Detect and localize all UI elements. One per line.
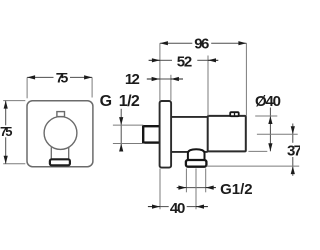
- dim 75 vertical: extension lines: [3, 100, 25, 102]
- G 1/2 leader line with arrows: [120, 109, 122, 152]
- dim 12: extension line right: [170, 75, 172, 100]
- dim 75 vertical: arrows: [4, 101, 8, 109]
- front view outlet neck right line: [68, 147, 70, 159]
- svg-text:G: G: [100, 93, 112, 110]
- svg-text:37: 37: [287, 142, 300, 159]
- front view outlet neck left line: [50, 147, 52, 159]
- dim G1/2 bottom: dimension line + arrows: [186, 187, 205, 189]
- svg-text:Ø40: Ø40: [255, 93, 281, 110]
- svg-text:G1/2: G1/2: [220, 181, 253, 198]
- dim 52: arrows outside: [149, 59, 160, 61]
- front view circle (volume control): [44, 117, 77, 150]
- dim 12: dimension line: [157, 78, 172, 80]
- front view square plate: [27, 101, 93, 167]
- svg-text:40: 40: [170, 200, 186, 217]
- dim 75 horizontal: dimension line: [27, 76, 53, 78]
- dim 52: dimension line: [160, 59, 172, 61]
- dim 75 horizontal: arrows: [27, 75, 35, 79]
- Ø40 extension lines: [255, 115, 277, 117]
- dim 96: extension lines: [159, 43, 161, 101]
- front view outlet nut: [50, 159, 70, 165]
- svg-text:1/2: 1/2: [119, 93, 140, 110]
- side view outlet nut: [186, 160, 207, 167]
- side view outlet dome: [188, 149, 205, 160]
- dim 75 horizontal: extension lines: [26, 77, 28, 98]
- dim 75 vertical: dimension line: [5, 101, 7, 126]
- dim 96: arrows: [160, 41, 168, 45]
- side view wall plate: [160, 101, 172, 168]
- side view cylinder (valve body): [208, 116, 246, 151]
- Ø40 leader line with arrows: [269, 108, 271, 152]
- dim 40: dimension line + arrows: [160, 206, 169, 208]
- svg-text:75: 75: [0, 124, 12, 139]
- dim 12: arrows outside: [147, 78, 160, 80]
- dim 37: dimension line + arrows: [292, 124, 294, 143]
- dim G1/2 bottom: extension lines: [185, 168, 187, 192]
- side view knob on cylinder: [230, 112, 239, 116]
- svg-text:52: 52: [177, 53, 193, 70]
- dim 52: extension line: [207, 56, 209, 116]
- side view wall stub (G1/2 inlet): [143, 126, 160, 142]
- dim 37: extension lines: [257, 133, 298, 135]
- dim 96: dimension line: [160, 42, 192, 44]
- G 1/2 extension lines: [113, 124, 143, 126]
- side view arm bottom edge: [171, 151, 188, 153]
- side view arm top edge: [171, 116, 208, 118]
- svg-text:96: 96: [194, 35, 209, 52]
- front view tab on circle top: [57, 112, 65, 117]
- svg-text:75: 75: [56, 70, 69, 86]
- svg-text:12: 12: [125, 71, 140, 88]
- dim 40: extension lines: [159, 169, 161, 210]
